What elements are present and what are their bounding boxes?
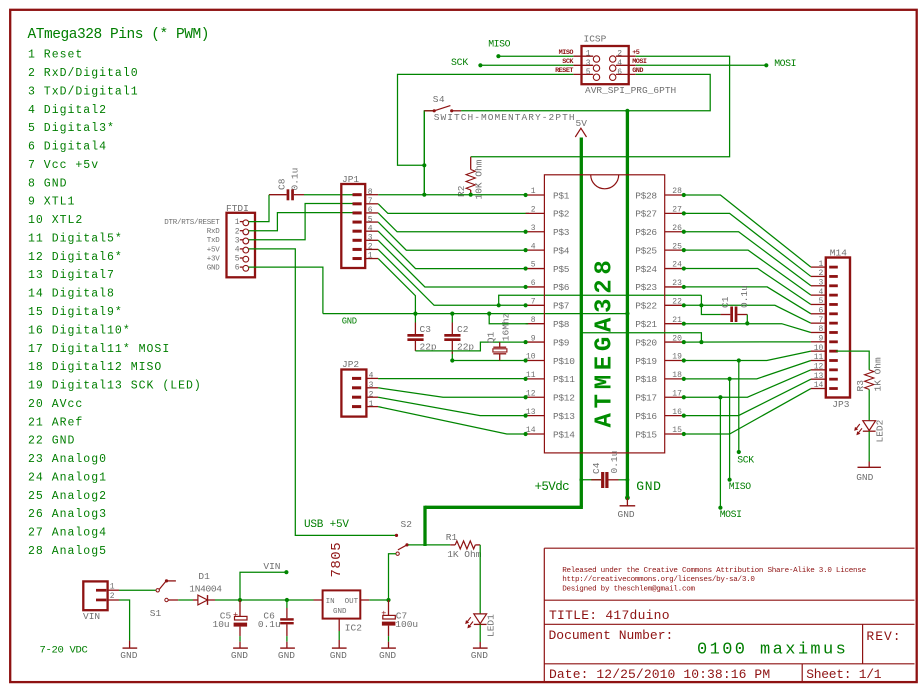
svg-text:3: 3 (235, 236, 240, 245)
svg-text:DTR/RTS/RESET: DTR/RTS/RESET (164, 219, 220, 227)
svg-text:+3V: +3V (207, 255, 221, 263)
svg-text:S1: S1 (150, 608, 162, 619)
junction C7 top (386, 598, 390, 602)
svg-text:JP3: JP3 (832, 399, 849, 410)
wire regulator OUT (360, 599, 369, 601)
svg-text:3: 3 (368, 234, 373, 243)
node VIN (net stub) (240, 572, 286, 600)
svg-text:2: 2 (110, 592, 115, 601)
wire ICSP pin5 RESET to reset net (398, 74, 574, 165)
svg-text:23: 23 (672, 279, 682, 288)
junction GND line at bus (625, 312, 629, 316)
svg-text:10K Ohm: 10K Ohm (474, 159, 485, 199)
svg-text:22 GND: 22 GND (28, 435, 75, 448)
wire IC pin26 to M14 pin3 (684, 232, 811, 286)
svg-text:3 TxD/Digital1: 3 TxD/Digital1 (28, 85, 139, 98)
svg-text:15: 15 (672, 426, 682, 435)
svg-text:SWITCH-MOMENTARY-2PTH: SWITCH-MOMENTARY-2PTH (434, 112, 576, 123)
svg-text:P$17: P$17 (635, 393, 657, 404)
svg-text:25: 25 (672, 242, 682, 251)
svg-text:P$27: P$27 (635, 209, 657, 220)
svg-text:4: 4 (368, 224, 373, 233)
svg-text:P$14: P$14 (553, 429, 575, 440)
svg-text:P$5: P$5 (553, 264, 570, 275)
svg-text:16 Digital10*: 16 Digital10* (28, 324, 131, 337)
svg-text:P$1: P$1 (553, 190, 570, 201)
connector VIN (83, 581, 107, 610)
svg-text:D1: D1 (198, 571, 210, 582)
svg-text:21 ARef: 21 ARef (28, 416, 83, 429)
junction crystal branch (487, 312, 491, 316)
wire IC pin22 to M14 pin7 (684, 305, 811, 323)
svg-text:4: 4 (369, 372, 374, 381)
svg-text:26 Analog3: 26 Analog3 (28, 508, 107, 521)
svg-text:16: 16 (672, 408, 682, 417)
wire IC pin18 to M14 pin11 (684, 361, 811, 379)
capacitor C6 0.1u (286, 600, 288, 608)
svg-text:1K Ohm: 1K Ohm (873, 357, 884, 392)
wire JP2.3 to IC pin12 (378, 388, 525, 397)
svg-text:14 Digital8: 14 Digital8 (28, 288, 115, 301)
wire JP2.2 to IC pin13 (378, 397, 525, 415)
IC pins left P$1-P$14 (526, 194, 545, 196)
svg-text:6: 6 (531, 279, 536, 288)
resistor R2 10K Ohm (470, 157, 472, 170)
wire JP1.7 to IC pin2 (378, 204, 529, 214)
wire FTDI pin1 to C8 (249, 195, 269, 222)
svg-text:P$21: P$21 (635, 319, 657, 330)
svg-text:P$12: P$12 (553, 393, 575, 404)
svg-text:IC2: IC2 (345, 623, 362, 634)
svg-text:0.1u: 0.1u (290, 168, 301, 191)
wire JP1.4 to IC pin5 (378, 231, 525, 268)
svg-text:6: 6 (368, 206, 373, 215)
LED LED1 (474, 614, 487, 624)
wire JP1.5 to IC pin4 (378, 222, 525, 250)
wire IC pin25 to M14 pin4 (684, 250, 811, 295)
wire SCK riser (738, 360, 740, 452)
svg-text:10: 10 (814, 344, 824, 353)
ground symbol below LED1 (479, 642, 481, 648)
svg-text:26: 26 (672, 224, 682, 233)
ground symbol GND bus (626, 498, 628, 506)
svg-text:7-20 VDC: 7-20 VDC (40, 645, 88, 657)
wire C1 to pin21 row (746, 315, 748, 324)
svg-text:11 Digital5*: 11 Digital5* (28, 232, 123, 245)
node SCK label (737, 450, 741, 454)
svg-text:GND: GND (342, 316, 357, 326)
svg-text:13: 13 (814, 372, 824, 381)
svg-text:10u: 10u (213, 619, 230, 630)
svg-text:TITLE: 417duino: TITLE: 417duino (549, 608, 670, 623)
svg-text:OUT: OUT (345, 598, 359, 606)
wire 5V bus (thick) (580, 138, 583, 508)
svg-text:13 Digital7: 13 Digital7 (28, 269, 115, 282)
wire S2 common to R1 (408, 544, 450, 546)
svg-text:3: 3 (369, 381, 374, 390)
svg-text:Document Number:: Document Number: (549, 628, 674, 643)
svg-text:9: 9 (531, 334, 536, 343)
svg-text:19: 19 (672, 353, 682, 362)
svg-text:2: 2 (368, 243, 373, 252)
svg-text:LED1: LED1 (486, 614, 497, 637)
ground symbol below C6 (280, 647, 295, 649)
wire C1 riser (701, 295, 720, 314)
svg-text:5: 5 (586, 68, 591, 77)
svg-text:1: 1 (368, 252, 373, 261)
wire LED1 to GND (479, 624, 481, 642)
svg-text:4: 4 (617, 59, 622, 68)
svg-text:S2: S2 (401, 519, 413, 530)
title block frame (544, 547, 914, 549)
svg-text:25 Analog2: 25 Analog2 (28, 490, 107, 503)
svg-text:7805: 7805 (329, 542, 345, 578)
wire IC pin24 to M14 pin5 (684, 269, 811, 305)
wire VCC line across IC (499, 295, 702, 305)
svg-text:GND: GND (231, 650, 248, 661)
svg-text:5: 5 (368, 215, 373, 224)
svg-text:0.1u: 0.1u (258, 619, 281, 630)
junction S4/reset row (422, 193, 426, 197)
svg-text:MISO: MISO (488, 39, 510, 50)
svg-text:28: 28 (672, 187, 682, 196)
svg-text:23 Analog0: 23 Analog0 (28, 453, 107, 466)
junction reset vertical (422, 163, 426, 167)
svg-text:P$26: P$26 (635, 227, 657, 238)
capacitor C5 10u (polarized) (239, 600, 241, 616)
svg-text:GND: GND (379, 650, 396, 661)
junction C6 top (285, 598, 289, 602)
svg-text:17: 17 (672, 389, 682, 398)
capacitor C1 0.1u (721, 314, 731, 316)
svg-text:4: 4 (235, 246, 240, 255)
svg-text:P$6: P$6 (553, 282, 570, 293)
svg-text:R3: R3 (855, 380, 866, 392)
svg-text:P$25: P$25 (635, 245, 657, 256)
wire MISO riser (729, 379, 731, 480)
svg-text:1: 1 (818, 260, 823, 269)
svg-text:6: 6 (617, 68, 622, 77)
svg-text:27: 27 (672, 206, 682, 215)
ground symbol below VIN (129, 641, 131, 649)
svg-text:MISO: MISO (729, 481, 751, 492)
wire GND bus (thick) (626, 111, 629, 498)
svg-text:Q1: Q1 (485, 331, 496, 343)
svg-text:9: 9 (818, 335, 823, 344)
svg-text:5: 5 (531, 261, 536, 270)
wire IC pin8 GND branch (489, 314, 528, 324)
svg-text:C4: C4 (591, 462, 602, 474)
svg-text:16Mhz: 16Mhz (500, 313, 511, 342)
svg-text:20 AVcc: 20 AVcc (28, 398, 83, 411)
svg-text:11: 11 (814, 353, 824, 362)
svg-text:0.1u: 0.1u (609, 451, 620, 474)
svg-text:24: 24 (672, 261, 682, 270)
wire regulator GND (338, 619, 340, 631)
svg-text:9 XTL1: 9 XTL1 (28, 196, 75, 209)
svg-text:0100 maximus: 0100 maximus (697, 641, 848, 660)
wire FTDI pin2 to JP1 pin6 (249, 213, 353, 231)
wire VIN pin2 to GND (119, 600, 130, 641)
wire reset row JP1.8 to IC pin1 (378, 194, 525, 196)
svg-text:GND: GND (618, 509, 635, 520)
junction C2 top (450, 312, 454, 316)
junction pin22 / C1 riser (699, 303, 703, 307)
capacitor C3 22p (414, 314, 416, 323)
svg-text:+5V: +5V (207, 246, 221, 254)
svg-text:R1: R1 (446, 532, 458, 543)
junction GND bus bottom (625, 495, 630, 500)
wire M14 pin10 to R3 (836, 351, 869, 370)
wire VIN pin1 to S1 (119, 589, 156, 591)
svg-text:20: 20 (672, 334, 682, 343)
ground symbol below regulator (332, 647, 347, 649)
svg-text:IN: IN (326, 598, 335, 606)
svg-text:1K Ohm: 1K Ohm (447, 549, 482, 560)
svg-text:1 Reset: 1 Reset (28, 49, 83, 62)
svg-text:P$24: P$24 (635, 264, 657, 275)
svg-text:3: 3 (531, 224, 536, 233)
svg-text:28 Analog5: 28 Analog5 (28, 545, 107, 558)
wire IC pin19 to M14 pin10 (684, 351, 811, 360)
junction MOSI riser (718, 395, 722, 399)
svg-text:P$22: P$22 (635, 301, 657, 312)
svg-text:4: 4 (531, 242, 536, 251)
svg-text:VIN: VIN (263, 561, 280, 572)
svg-text:TxD: TxD (207, 237, 221, 245)
svg-text:LED2: LED2 (874, 419, 885, 442)
svg-text:JP2: JP2 (342, 359, 359, 370)
svg-text:GND: GND (120, 650, 137, 661)
wire ICSP pin2 +5 to R2 top (471, 56, 730, 157)
svg-text:Sheet: 1/1: Sheet: 1/1 (806, 667, 882, 682)
svg-text:AVR_SPI_PRG_6PTH: AVR_SPI_PRG_6PTH (585, 85, 676, 96)
junction R2 bottom on reset row (469, 193, 473, 197)
svg-text:P$18: P$18 (635, 374, 657, 385)
svg-text:P$4: P$4 (553, 245, 570, 256)
wire IC pin28 to M14 pin1 (684, 195, 811, 267)
wire ICSP pin6 GND to S4 and GND bus (461, 74, 710, 110)
wire JP1.1 to GND line (378, 259, 415, 314)
svg-text:4: 4 (818, 288, 823, 297)
capacitor C7 100u (polarized) (388, 600, 390, 615)
junction MISO riser (728, 377, 732, 381)
svg-text:P$8: P$8 (553, 319, 570, 330)
svg-text:21: 21 (672, 316, 682, 325)
crystal Q1 16Mhz (499, 342, 501, 347)
svg-text:7: 7 (818, 316, 823, 325)
svg-text:5V: 5V (576, 118, 588, 129)
svg-text:USB +5V: USB +5V (304, 519, 349, 531)
junction VCC riser on pin7 row (497, 303, 501, 307)
svg-text:7: 7 (531, 298, 536, 307)
junction AVCC riser (699, 340, 703, 344)
svg-text:Released under the Creative Co: Released under the Creative Commons Attr… (562, 567, 866, 575)
svg-text:5: 5 (818, 297, 823, 306)
svg-text:P$2: P$2 (553, 209, 570, 220)
wire JP2.4 to IC pin11 (378, 378, 525, 380)
capacitor C4 0.1u (579, 478, 583, 482)
wire IC pin15 to M14 pin14 (684, 389, 811, 434)
wire MOSI riser (719, 397, 721, 507)
svg-text:0.1u: 0.1u (739, 285, 750, 308)
svg-text:2 RxD/Digital0: 2 RxD/Digital0 (28, 67, 139, 80)
svg-text:MOSI: MOSI (774, 58, 796, 69)
svg-text:3: 3 (586, 59, 591, 68)
svg-text:GND: GND (207, 265, 221, 273)
IC ATMEGA328 (544, 175, 664, 453)
wire C3 bottom to XTL1 row (415, 342, 525, 351)
svg-text:RxD: RxD (207, 228, 221, 236)
svg-text:22: 22 (672, 298, 682, 307)
wire IC pin17 to M14 pin12 (684, 370, 811, 397)
svg-text:GND: GND (333, 608, 347, 616)
junction C1 bottom on pin21 row (745, 321, 749, 325)
svg-text:5: 5 (235, 255, 240, 264)
svg-text:C8: C8 (277, 178, 288, 190)
wire JP1.3 to IC pin6 (378, 240, 525, 287)
svg-text:GND: GND (278, 650, 295, 661)
svg-text:GND: GND (330, 650, 347, 661)
ground symbol below C5 (233, 647, 248, 649)
svg-text:19 Digital13 SCK (LED): 19 Digital13 SCK (LED) (28, 380, 202, 393)
svg-text:P$15: P$15 (635, 429, 657, 440)
wire FTDI pin4 +5V to USB rail (249, 249, 397, 536)
svg-text:1: 1 (369, 400, 374, 409)
svg-text:ICSP: ICSP (584, 34, 607, 45)
svg-text:1: 1 (531, 187, 536, 196)
svg-text:6: 6 (818, 307, 823, 316)
wire IC pin27 to M14 pin2 (684, 213, 811, 276)
svg-text:REV:: REV: (866, 629, 901, 644)
svg-text:P$16: P$16 (635, 411, 657, 422)
svg-text:MOSI: MOSI (720, 509, 742, 520)
svg-text:7 Vcc +5v: 7 Vcc +5v (28, 159, 99, 172)
svg-text:GND: GND (636, 479, 661, 494)
svg-text:8: 8 (818, 325, 823, 334)
svg-text:SCK: SCK (451, 57, 468, 68)
ground symbol below C7 (381, 647, 396, 649)
svg-text:P$9: P$9 (553, 337, 570, 348)
svg-text:8: 8 (368, 188, 373, 197)
svg-text:2: 2 (818, 269, 823, 278)
svg-text:2: 2 (617, 50, 622, 59)
svg-text:17 Digital11* MOSI: 17 Digital11* MOSI (28, 343, 170, 356)
svg-text:C1: C1 (720, 296, 731, 308)
wire GND net line to GND bus (323, 313, 628, 315)
svg-text:P$28: P$28 (635, 190, 657, 201)
svg-text:1: 1 (586, 50, 591, 59)
svg-text:P$20: P$20 (635, 337, 657, 348)
svg-text:P$3: P$3 (553, 227, 570, 238)
svg-text:ATmega328 Pins (* PWM): ATmega328 Pins (* PWM) (28, 27, 210, 43)
svg-text:8: 8 (531, 316, 536, 325)
svg-text:P$10: P$10 (553, 356, 575, 367)
svg-text:1: 1 (235, 218, 240, 227)
junction C5/VIN riser (238, 598, 242, 602)
svg-text:27 Analog4: 27 Analog4 (28, 527, 107, 540)
svg-text:+5Vdc: +5Vdc (535, 480, 570, 494)
svg-text:P$13: P$13 (553, 411, 575, 422)
wire JP2.1 to IC pin14 (378, 407, 525, 434)
wire 5V to AVCC pin20 row (581, 333, 701, 342)
svg-text:Date: 12/25/2010 10:38:16 PM: Date: 12/25/2010 10:38:16 PM (549, 667, 770, 682)
svg-text:S4: S4 (433, 94, 445, 105)
node MOSI label (718, 506, 722, 510)
svg-text:C2: C2 (457, 324, 469, 335)
wire IC pin16 to M14 pin13 (684, 379, 811, 415)
node MISO label (728, 478, 732, 482)
svg-text:SCK: SCK (737, 454, 754, 465)
svg-text:Designed by theschlem@gmail.co: Designed by theschlem@gmail.com (562, 585, 695, 593)
svg-text:18 Digital12 MISO: 18 Digital12 MISO (28, 361, 162, 374)
svg-text:6: 6 (235, 264, 240, 273)
svg-text:P$7: P$7 (553, 301, 569, 312)
svg-text:8 GND: 8 GND (28, 177, 68, 190)
capacitor C2 22p (451, 314, 453, 323)
junction GND bus top (625, 109, 629, 113)
svg-text:P$11: P$11 (553, 374, 575, 385)
LED LED2 (863, 421, 876, 431)
wire S1 to D1 (178, 599, 193, 601)
svg-text:6 Digital4: 6 Digital4 (28, 141, 107, 154)
svg-text:GND: GND (856, 472, 873, 483)
svg-text:14: 14 (814, 381, 824, 390)
wire IC pin20 to M14 pin9 (684, 341, 811, 343)
svg-text:http://creativecommons.org/lic: http://creativecommons.org/licenses/by-s… (562, 576, 755, 584)
svg-text:15 Digital9*: 15 Digital9* (28, 306, 123, 319)
svg-text:ATMEGA328: ATMEGA328 (592, 256, 619, 428)
svg-text:1: 1 (110, 582, 115, 591)
wire R1 to LED1 (479, 545, 481, 614)
svg-text:3: 3 (818, 278, 823, 287)
svg-text:5 Digital3*: 5 Digital3* (28, 122, 115, 135)
wire LED2 to GND (868, 431, 870, 461)
junction C2 bottom (450, 358, 454, 362)
svg-text:18: 18 (672, 371, 682, 380)
wire D1 to regulator IN (215, 599, 314, 601)
svg-text:1N4004: 1N4004 (189, 583, 222, 594)
svg-text:7: 7 (368, 197, 373, 206)
svg-text:P$19: P$19 (635, 356, 657, 367)
wire IC pin23 to M14 pin6 (684, 287, 811, 314)
wire JP1.6 to IC pin3 (378, 213, 525, 232)
svg-text:2: 2 (235, 227, 240, 236)
resistor R3 1K Ohm (865, 370, 874, 390)
wire XTL2 row (452, 360, 527, 362)
wire JP1.2 to IC pin7 (378, 249, 525, 305)
junction SCK riser (737, 358, 741, 362)
IC pins right P$28-P$15 (665, 194, 684, 196)
junction C3 top (413, 312, 417, 316)
svg-text:C3: C3 (420, 324, 432, 335)
svg-text:VIN: VIN (83, 611, 100, 622)
svg-text:12 Digital6*: 12 Digital6* (28, 251, 123, 264)
wire S2 lower throw to regulator output (389, 554, 397, 601)
svg-text:10 XTL2: 10 XTL2 (28, 214, 83, 227)
wire R3 to LED2 (868, 389, 870, 420)
svg-text:2: 2 (369, 390, 374, 399)
svg-text:12: 12 (814, 363, 824, 372)
wire FTDI pin3 to JP1 pin7 (249, 204, 353, 240)
svg-text:P$23: P$23 (635, 282, 657, 293)
wire IC pin21 to M14 pin8 (684, 324, 811, 333)
wire C8 to JP1 pin8 (304, 194, 353, 196)
svg-text:100u: 100u (395, 619, 418, 630)
svg-text:GND: GND (471, 650, 488, 661)
wire FTDI pin6 GND down (249, 267, 323, 314)
svg-text:24 Analog1: 24 Analog1 (28, 471, 107, 484)
